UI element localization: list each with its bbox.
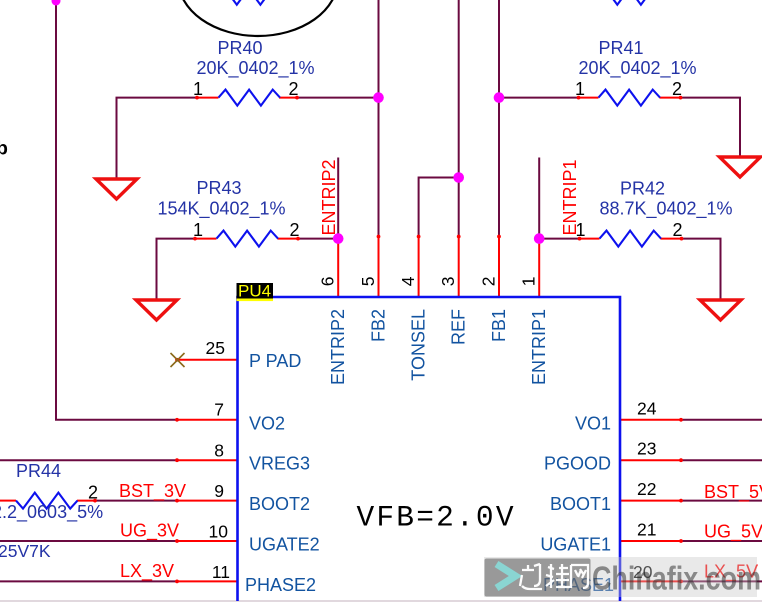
- PU4 reference label: [237, 283, 274, 299]
- svg-text:BST_5V: BST_5V: [704, 482, 762, 503]
- svg-text:ENTRIP2: ENTRIP2: [328, 309, 348, 385]
- svg-text:VFB=2.0V: VFB=2.0V: [357, 501, 516, 535]
- node ENTRIP1 junction: [534, 233, 545, 244]
- svg-text:8: 8: [214, 441, 224, 461]
- pin 21 lead: [620, 540, 681, 542]
- net labels (red, horizontal): [119, 481, 762, 583]
- pin 5 lead: [378, 237, 380, 298]
- svg-text:22: 22: [637, 479, 656, 499]
- wire PR40 pin2 to junction: [297, 97, 379, 99]
- IC side pin numbers: [206, 338, 230, 582]
- wire bottom border line: [0, 600, 762, 602]
- IC top pin numbers (rotated): [318, 276, 539, 286]
- resistor PR40 leads: [197, 97, 219, 99]
- IC left pin names: [245, 351, 320, 595]
- svg-text:ENTRIP2: ENTRIP2: [319, 159, 339, 235]
- svg-text:ENTRIP1: ENTRIP1: [529, 309, 549, 385]
- wire top vertical to pin 5: [378, 0, 380, 238]
- PIN LEADS (red): [0, 98, 682, 582]
- highlight ellipse: [178, 0, 338, 36]
- svg-text:Chinafix.com: Chinafix.com: [592, 561, 761, 598]
- svg-text:BOOT1: BOOT1: [550, 494, 611, 514]
- svg-text:UGATE1: UGATE1: [540, 535, 611, 555]
- svg-text:10: 10: [209, 522, 229, 542]
- svg-text:PGOOD: PGOOD: [544, 454, 611, 474]
- svg-text:BST_3V: BST_3V: [119, 481, 186, 502]
- svg-text:2.2_0603_5%: 2.2_0603_5%: [0, 502, 103, 523]
- pin 22 lead: [620, 500, 681, 502]
- wire PR43 pin1 to ground: [157, 239, 196, 300]
- svg-text:2: 2: [479, 277, 499, 287]
- wire pin21 UGATE1: [680, 540, 762, 542]
- node PR40/pin5 junction: [373, 92, 384, 103]
- pin 7 lead: [177, 419, 238, 421]
- ground (PR40): [96, 179, 137, 199]
- pin 23 lead: [620, 459, 681, 461]
- pin end dots: [93, 96, 683, 584]
- svg-text:1: 1: [519, 277, 539, 287]
- pin 3 lead: [458, 237, 460, 298]
- svg-text:BOOT2: BOOT2: [249, 494, 310, 514]
- resistor PR42 zigzag: [600, 231, 662, 247]
- wire left vertical bus: [55, 0, 57, 420]
- wire junction to PR42 pin1: [539, 238, 579, 240]
- svg-text:1: 1: [575, 79, 585, 99]
- svg-text:PR42: PR42: [620, 178, 665, 198]
- watermark CJK glyph 3: [571, 565, 588, 588]
- svg-text:88.7K_0402_1%: 88.7K_0402_1%: [599, 198, 732, 219]
- svg-text:VO2: VO2: [249, 413, 285, 433]
- svg-text:9: 9: [214, 481, 224, 501]
- wire PR40 pin1 to ground: [117, 98, 198, 179]
- svg-text:UG_3V: UG_3V: [120, 521, 179, 542]
- svg-text:P PAD: P PAD: [249, 351, 301, 371]
- svg-text:25: 25: [206, 338, 225, 358]
- wire ENTRIP2 stub: [337, 158, 339, 239]
- resistor pin digits: [88, 79, 683, 503]
- IC top pin names (rotated blue): [328, 309, 549, 385]
- wire top vertical to pin 2: [498, 0, 500, 238]
- wire pin11 PHASE2: [0, 580, 178, 582]
- wire ENTRIP1 stub: [538, 158, 540, 239]
- svg-text:20K_0402_1%: 20K_0402_1%: [578, 58, 696, 79]
- svg-text:2: 2: [672, 79, 682, 99]
- wire pin24 VO1: [680, 419, 762, 421]
- svg-text:REF: REF: [449, 309, 469, 345]
- svg-text:b: b: [0, 138, 8, 160]
- svg-text:21: 21: [637, 520, 656, 540]
- wire PR41 pin2 to ground: [681, 98, 741, 157]
- svg-text:PR40: PR40: [217, 38, 262, 58]
- svg-text:25V7K: 25V7K: [0, 541, 51, 561]
- node top of left bus: [52, 0, 61, 6]
- watermark CJK glyph 1: [520, 564, 542, 589]
- wire TONSEL horizontal segment: [419, 177, 459, 179]
- watermark CJK glyph 2: [546, 564, 570, 588]
- svg-text:2: 2: [672, 220, 682, 240]
- svg-text:154K_0402_1%: 154K_0402_1%: [157, 198, 285, 219]
- no-connect X on pin 25: [171, 353, 185, 367]
- svg-text:PR44: PR44: [16, 461, 61, 481]
- wire pin23 PGOOD: [680, 459, 762, 461]
- pin 20 lead: [620, 580, 681, 582]
- node PR41/pin2 junction: [494, 92, 505, 103]
- pin 11 lead: [177, 580, 238, 582]
- svg-text:PR41: PR41: [598, 38, 643, 58]
- resistor PR41 zigzag: [599, 90, 661, 106]
- svg-text:24: 24: [637, 398, 657, 418]
- svg-text:FB1: FB1: [489, 309, 509, 342]
- resistor R-top-right (partial, above PR41): [599, 0, 661, 5]
- svg-text:PU4: PU4: [238, 282, 271, 301]
- wire pin7 VO2 horizontal: [55, 419, 178, 421]
- wire pin10 UGATE2: [0, 540, 178, 542]
- pin 25 lead: [178, 359, 238, 361]
- pin 24 lead: [620, 419, 681, 421]
- wire vertical to pin 4: [418, 177, 420, 238]
- svg-text:4: 4: [398, 276, 418, 286]
- watermark chevron: [497, 564, 516, 588]
- svg-text:VREG3: VREG3: [249, 454, 310, 474]
- resistor PR42 leads: [580, 238, 600, 240]
- svg-text:2: 2: [88, 483, 98, 503]
- IC PU4 body: [238, 297, 621, 601]
- wire junction to PR41 pin1: [499, 97, 579, 99]
- svg-text:ENTRIP1: ENTRIP1: [560, 159, 580, 235]
- wire pin22 BOOT1: [680, 500, 762, 502]
- resistor PR44 zigzag (inverted phase): [16, 493, 78, 509]
- pin 4 lead: [418, 237, 420, 298]
- svg-text:FB2: FB2: [369, 309, 389, 342]
- svg-text:PHASE2: PHASE2: [245, 575, 316, 595]
- svg-text:3: 3: [438, 277, 458, 287]
- wire PR44 pin2 to pin9 BOOT2: [95, 500, 178, 502]
- svg-text:UG_5V: UG_5V: [704, 522, 762, 543]
- node ENTRIP2 junction: [333, 233, 344, 244]
- svg-text:20K_0402_1%: 20K_0402_1%: [196, 58, 314, 79]
- resistor PR43 leads: [195, 238, 217, 240]
- node REF junction: [453, 172, 464, 183]
- IC right pin names: [540, 413, 614, 595]
- ground (PR41): [720, 157, 761, 177]
- texts: resistor labels: [16, 38, 733, 481]
- svg-text:2: 2: [289, 220, 299, 240]
- resistor PR44 leads: [0, 500, 16, 502]
- svg-text:PR43: PR43: [196, 178, 241, 198]
- wire pin20 PHASE1: [680, 580, 762, 582]
- pin 1 lead: [538, 237, 540, 298]
- svg-text:11: 11: [212, 562, 230, 582]
- ground (PR42): [700, 300, 741, 320]
- svg-text:UGATE2: UGATE2: [249, 535, 320, 555]
- resistor PR40 zigzag: [219, 90, 281, 106]
- wire PR43 pin2 to junction: [298, 238, 338, 240]
- wire pin8 VREG3: [0, 459, 178, 461]
- watermark dark box: [485, 559, 591, 597]
- pin 6 lead: [337, 237, 339, 298]
- pin 9 lead: [177, 500, 238, 502]
- svg-text:7: 7: [214, 399, 224, 419]
- svg-text:2: 2: [288, 79, 298, 99]
- wire PR42 pin2 to ground: [682, 239, 721, 300]
- resistor R-top-left (partial, inside ellipse): [218, 0, 280, 5]
- pin 2 lead: [498, 237, 500, 298]
- wire top vertical to pin 3: [458, 0, 460, 238]
- svg-text:TONSEL: TONSEL: [409, 309, 429, 381]
- pin 10 lead: [177, 540, 238, 542]
- svg-text:5: 5: [358, 277, 378, 287]
- svg-text:1: 1: [193, 79, 203, 99]
- ground (PR43): [136, 300, 177, 320]
- svg-text:VO1: VO1: [575, 413, 611, 433]
- pin 8 lead: [177, 459, 238, 461]
- svg-text:1: 1: [193, 220, 203, 240]
- svg-text:6: 6: [318, 277, 338, 287]
- svg-text:23: 23: [637, 439, 656, 459]
- svg-text:LX_3V: LX_3V: [120, 561, 174, 582]
- resistor PR41 leads: [579, 97, 599, 99]
- watermark band: [484, 557, 757, 597]
- resistor PR43 zigzag: [217, 231, 279, 247]
